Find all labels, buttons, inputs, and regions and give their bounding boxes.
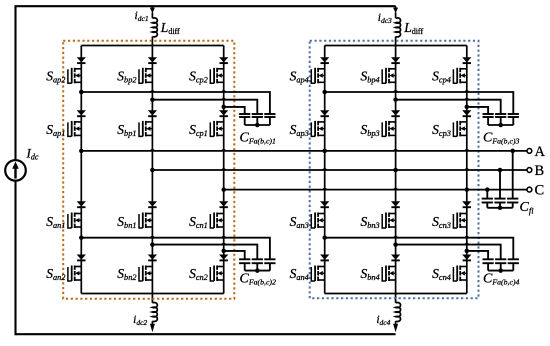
node CF1 phase-a junction <box>79 90 84 95</box>
wire CF4 cap-a to star <box>512 263 514 270</box>
wire inductor to arrow (idc2) <box>151 321 153 324</box>
wire hop bus A <box>464 149 469 151</box>
wire module1 bottom bus <box>81 293 223 295</box>
wire hop bus C <box>322 188 327 190</box>
node CF2 phase-c junction <box>221 249 226 254</box>
diode of switch Scn2 <box>219 255 228 261</box>
mosfet Scn2 <box>210 266 223 282</box>
wire CF1 cap line a <box>81 92 270 114</box>
node CF4 star point <box>498 268 503 273</box>
wire CF2 cap-b to star <box>256 263 258 270</box>
wire inductor to bus (idc3) <box>395 37 397 46</box>
wire hop CF4 line-a over leg c <box>464 236 469 238</box>
svg-text:B: B <box>535 163 545 179</box>
mosfet Sbp4 <box>382 68 395 84</box>
wire CF4 cap-b to star <box>500 263 502 270</box>
wire inductor to arrow (idc4) <box>395 321 397 324</box>
mosfet Sbn4 <box>382 266 395 282</box>
diode of switch Scn3 <box>462 201 471 207</box>
wire feed into module (idc1) <box>151 6 153 8</box>
wire hop CF2 line-a over leg b <box>150 236 155 238</box>
wire Cfi riser A <box>512 151 514 199</box>
wire hop bus B <box>221 168 226 170</box>
diode of switch Sbn2 <box>148 255 157 261</box>
mosfet Scp3 <box>453 121 466 136</box>
wire Cfi C to star <box>486 203 488 208</box>
diode of switch Sap2 <box>77 57 86 63</box>
node CF1 phase-c junction <box>221 105 226 110</box>
current source Idc <box>5 160 26 181</box>
diode of switch Sbn1 <box>148 201 157 207</box>
mosfet Scp4 <box>453 68 466 84</box>
wire hop CF1 line-a over leg c <box>221 90 226 92</box>
wire CF4 cap-c to star <box>487 263 489 270</box>
diode of switch Scp2 <box>219 57 228 63</box>
node CF3 phase-c junction <box>465 105 470 110</box>
wire hop CF3 line-a over leg c <box>464 90 469 92</box>
wire arrow to inductor (idc3) <box>395 13 397 19</box>
current arrow idc3 <box>393 8 398 14</box>
current arrow idc2 <box>150 324 155 332</box>
node CF1 star point <box>255 123 260 128</box>
capacitor CF4 phase-b <box>495 259 506 263</box>
diode of switch San3 <box>320 201 329 207</box>
wire hop bus A <box>393 149 398 151</box>
wire hop bus A <box>150 149 155 151</box>
module 1 dashed box (orange) <box>63 41 234 299</box>
wire hop CF2 line-b over leg c <box>221 243 226 245</box>
node CF4 phase-a junction <box>322 235 327 240</box>
node bus B - Sbp3 leg <box>393 168 398 173</box>
wire CF2 cap line c <box>224 251 245 259</box>
wire module2 phase-c leg <box>466 46 468 294</box>
diode of switch Sbp1 <box>148 110 157 116</box>
wire CF1 star bar <box>245 124 270 126</box>
inductor (bottom,idc2) <box>152 303 157 322</box>
diode of switch Scn4 <box>462 255 471 261</box>
wire top dc bus <box>16 5 396 7</box>
capacitor CF4 phase-c <box>483 259 494 263</box>
wire CF3 cap-c to star <box>487 117 489 125</box>
capacitor CF4 phase-a <box>508 259 519 263</box>
mosfet Scp1 <box>210 121 223 136</box>
diode of switch Sbp3 <box>391 110 400 116</box>
wire phase bus B <box>152 169 527 171</box>
wire module1 phase-c leg <box>223 46 225 294</box>
mosfet San1 <box>68 213 81 229</box>
wire CF4 star bar <box>488 270 513 272</box>
mosfet Sbp3 <box>382 121 395 136</box>
wire CF4 cap line a <box>325 238 514 260</box>
node bus C - Scp3 leg <box>465 187 470 192</box>
wire CF1 cap-a to star <box>269 117 271 125</box>
svg-text:C: C <box>535 183 545 199</box>
mosfet Sbn1 <box>139 213 152 229</box>
wire CF1 cap line c <box>224 107 245 114</box>
wire CF2 cap-a to star <box>269 263 271 270</box>
wire module2 phase-b leg <box>395 46 397 294</box>
wire module1 phase-b leg <box>151 46 153 294</box>
wire module1 phase-a leg <box>80 46 82 294</box>
wire hop bus C <box>393 188 398 190</box>
node bus A - Cfi tap <box>510 149 515 154</box>
wire inductor to bus (idc1) <box>151 37 153 46</box>
wire hop bus B <box>464 168 469 170</box>
wire left dc rail (lower) <box>14 181 16 336</box>
inductor (bottom,idc4) <box>396 303 401 322</box>
wire bus to inductor (idc4) <box>395 294 397 303</box>
diode of switch San1 <box>77 201 86 207</box>
svg-text:A: A <box>535 144 546 160</box>
wire Cfi A to star <box>512 203 514 208</box>
mosfet Sbp2 <box>139 68 152 84</box>
wire hop CF4 line-a over leg b <box>393 236 398 238</box>
diode of switch Scp1 <box>219 110 228 116</box>
capacitor CF3 phase-a <box>508 114 519 117</box>
inductor Ldiff (top,idc1) <box>152 18 157 37</box>
wire phase bus C <box>224 189 527 191</box>
wire CF3 star bar <box>488 124 513 126</box>
wire CF3 cap line a <box>325 92 514 114</box>
wire hop CF4 line-b over leg c <box>464 243 469 245</box>
wire Cfi B to star <box>499 203 501 208</box>
wire hop CF3 line-a over leg b <box>393 90 398 92</box>
mosfet San3 <box>311 213 324 229</box>
mosfet Sbp1 <box>139 121 152 136</box>
node bus B - Sbp1 leg <box>150 168 155 173</box>
wire Cfi star bar <box>487 207 512 209</box>
wire module1 top bus <box>81 45 223 47</box>
capacitor Cfi phase B <box>494 199 505 203</box>
diode of switch Sap4 <box>320 57 329 63</box>
wire left dc rail (upper) <box>14 5 16 160</box>
diode of switch San4 <box>320 255 329 261</box>
wire CF1 cap-b to star <box>256 117 258 125</box>
wire CF2 star bar <box>245 270 270 272</box>
wire hop CF1 line-a over leg b <box>150 90 155 92</box>
diode of switch Sbp2 <box>148 57 157 63</box>
capacitor CF1 phase-c <box>239 114 250 117</box>
wire CF3 cap-a to star <box>512 117 514 125</box>
mosfet San2 <box>68 266 81 282</box>
wire hop CF3 line-b over leg c <box>464 98 469 100</box>
mosfet Sap4 <box>311 68 324 84</box>
node bus C - Scp1 leg <box>221 187 226 192</box>
wire module2 bottom bus <box>325 293 467 295</box>
wire hop CF2 line-a over leg c <box>221 236 226 238</box>
wire CF2 cap line a <box>81 238 270 260</box>
wire Cfi riser B <box>499 170 501 199</box>
diode of switch Sbn3 <box>391 201 400 207</box>
terminal A <box>527 149 532 154</box>
wire phase bus A <box>81 150 527 152</box>
diode of switch Sap3 <box>320 110 329 116</box>
wire CF2 cap-c to star <box>244 263 246 270</box>
mosfet Scn4 <box>453 266 466 282</box>
wire hop bus A <box>221 149 226 151</box>
node CF2 phase-a junction <box>79 235 84 240</box>
node Cfi star <box>498 206 503 211</box>
wire CF2 cap line b <box>152 245 257 260</box>
node CF3 phase-a junction <box>322 90 327 95</box>
terminal B <box>527 168 532 173</box>
mosfet Sap3 <box>311 121 324 136</box>
wire CF3 cap line b <box>396 100 501 114</box>
module 2 dashed box (blue) <box>310 41 479 299</box>
wire bottom dc bus <box>16 333 396 335</box>
wire hop bus B <box>322 168 327 170</box>
capacitor CF2 phase-c <box>239 259 250 263</box>
capacitor CF3 phase-b <box>495 114 506 117</box>
capacitor CF2 phase-a <box>264 259 275 263</box>
wire CF3 cap line c <box>467 107 488 114</box>
wire feed into module (idc3) <box>395 6 397 8</box>
current arrow idc4 <box>393 324 398 332</box>
node CF1 phase-b junction <box>150 97 155 102</box>
diode of switch Sbp4 <box>391 57 400 63</box>
node CF4 phase-b junction <box>393 242 398 247</box>
node CF3 phase-b junction <box>393 97 398 102</box>
diode of switch Scp3 <box>462 110 471 116</box>
node bus C - Cfi tap <box>485 187 490 192</box>
wire CF3 cap-b to star <box>500 117 502 125</box>
mosfet Sap1 <box>68 121 81 136</box>
current arrow idc1 <box>150 8 155 14</box>
wire arrow to inductor (idc1) <box>151 13 153 19</box>
diode of switch Scp4 <box>462 57 471 63</box>
node CF3 star point <box>498 123 503 128</box>
wire bus to inductor (idc2) <box>151 294 153 303</box>
mosfet Scp2 <box>210 68 223 84</box>
wire CF1 cap-c to star <box>244 117 246 125</box>
terminal C <box>527 187 532 192</box>
wire hop CF1 line-b over leg c <box>221 98 226 100</box>
capacitor CF3 phase-c <box>483 114 494 117</box>
wire CF4 cap line c <box>467 251 488 259</box>
capacitor CF2 phase-b <box>252 259 263 263</box>
node bus B - Cfi tap <box>498 168 503 173</box>
node CF4 phase-c junction <box>465 249 470 254</box>
capacitor Cfi phase A <box>507 199 518 203</box>
wire CF1 cap line b <box>152 100 257 114</box>
mosfet San4 <box>311 266 324 282</box>
wire Cfi riser C <box>486 190 488 199</box>
capacitor Cfi phase C <box>482 199 493 203</box>
capacitor CF1 phase-b <box>252 114 263 117</box>
node CF2 star point <box>255 268 260 273</box>
node bus A - Sap3 leg <box>322 149 327 154</box>
wire CF4 cap line b <box>396 245 501 260</box>
inductor Ldiff (top,idc3) <box>396 18 401 37</box>
node bus A - Sap1 leg <box>79 149 84 154</box>
mosfet Scn1 <box>210 213 223 229</box>
diode of switch Sap1 <box>77 110 86 116</box>
mosfet Scn3 <box>453 213 466 229</box>
mosfet Sbn2 <box>139 266 152 282</box>
capacitor CF1 phase-a <box>264 114 275 117</box>
diode of switch Scn1 <box>219 201 228 207</box>
node CF2 phase-b junction <box>150 242 155 247</box>
wire module2 top bus <box>325 45 467 47</box>
mosfet Sbn3 <box>382 213 395 229</box>
diode of switch Sbn4 <box>391 255 400 261</box>
mosfet Sap2 <box>68 68 81 84</box>
diode of switch San2 <box>77 255 86 261</box>
wire module2 phase-a leg <box>324 46 326 294</box>
